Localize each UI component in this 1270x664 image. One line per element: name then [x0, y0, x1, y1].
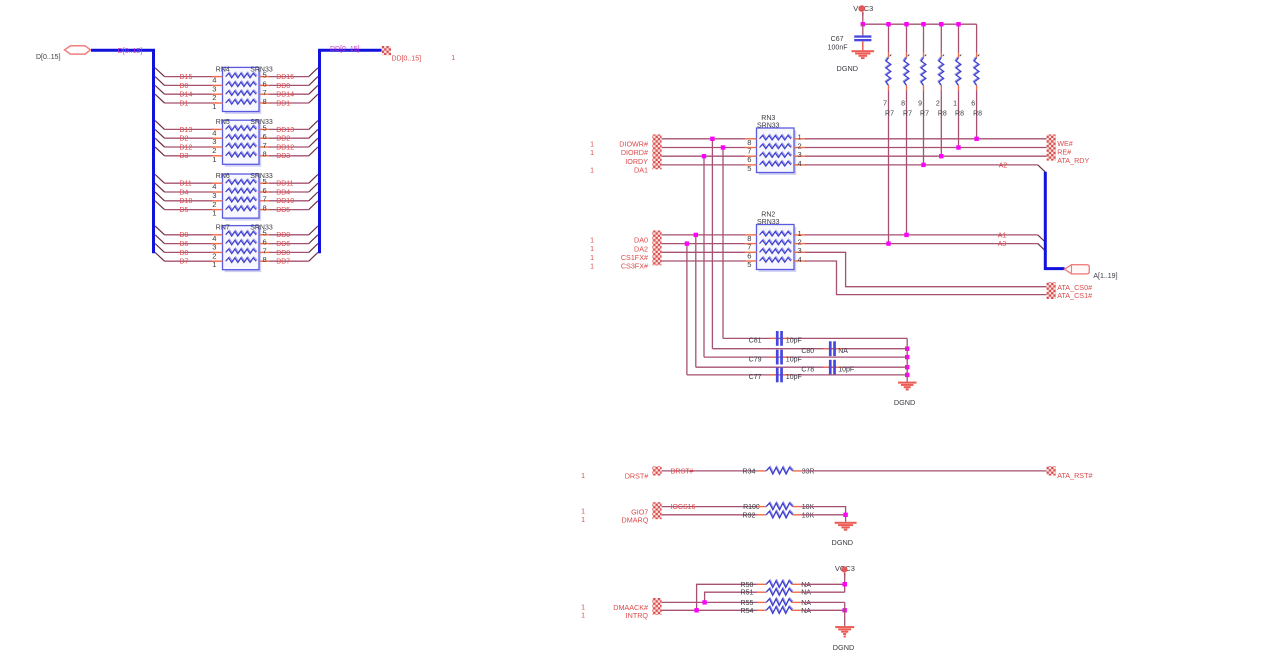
svg-text:R50: R50 — [741, 582, 754, 589]
pin 2 of RN2 — [794, 243, 806, 245]
pin 6 of RN5 — [259, 137, 271, 139]
svg-text:DIOWR#: DIOWR# — [619, 140, 648, 149]
bus entry DD6 — [309, 235, 318, 244]
wire RE# — [805, 147, 1047, 149]
pin 8 of RN6 — [259, 209, 271, 211]
bus entry D14 — [155, 85, 164, 94]
svg-text:10K: 10K — [802, 512, 815, 519]
wire DD1 — [270, 102, 309, 104]
svg-text:DD15: DD15 — [276, 74, 294, 81]
svg-text:8: 8 — [747, 234, 751, 243]
svg-text:10pF: 10pF — [786, 338, 802, 345]
resistor network RN4 SRN33 — [225, 70, 262, 114]
junction at 697,610 — [694, 608, 698, 612]
pin 7 of RN3 — [745, 147, 757, 149]
wire A2 — [805, 164, 1038, 166]
svg-text:7: 7 — [747, 147, 751, 156]
sheet-connector group DMAACK#/INTRQ (checkered) — [652, 598, 661, 615]
resistor element 4 of RN6 — [226, 205, 257, 210]
wire tap DMAACK# up to R51 — [705, 592, 758, 602]
svg-text:DD14: DD14 — [276, 92, 294, 99]
wire R50 right — [801, 583, 845, 585]
resistor element 3 of RN6 — [226, 197, 257, 202]
svg-text:RN4: RN4 — [216, 66, 230, 73]
wire DMAACK# (R55 row) — [662, 601, 758, 603]
svg-text:8: 8 — [263, 255, 267, 264]
bus entry DD15 — [309, 68, 318, 77]
pin 4 of RN6 — [212, 182, 223, 184]
capacitor C79 10pF — [776, 350, 779, 365]
svg-text:C80: C80 — [801, 348, 814, 355]
wire caps to ground — [906, 338, 908, 381]
bus entry DD14 — [309, 85, 318, 94]
svg-text:10pF: 10pF — [786, 374, 802, 381]
wire IORDY to RN3 — [662, 155, 746, 157]
svg-text:1: 1 — [590, 255, 594, 262]
bus entry DD4 — [309, 183, 318, 192]
junction at 846,515 — [843, 513, 847, 517]
svg-text:D2: D2 — [180, 136, 189, 143]
svg-text:R55: R55 — [741, 600, 754, 607]
svg-text:8: 8 — [263, 204, 267, 213]
wire DD4 — [270, 191, 309, 193]
wire DA2 to RN2 — [662, 243, 746, 245]
svg-text:SRN33: SRN33 — [757, 122, 780, 129]
bus entry D4 — [155, 183, 164, 192]
bus entry DD12 — [309, 138, 318, 147]
junction at 845,610 — [843, 608, 847, 612]
bus entry DD3 — [309, 147, 318, 156]
svg-text:DD13: DD13 — [276, 127, 294, 134]
resistor R54 NA — [758, 609, 767, 611]
wire DD14 — [270, 93, 309, 95]
wire DIOWR# to RN3 — [662, 138, 746, 140]
wire tap DA0 down — [695, 235, 697, 367]
svg-text:6: 6 — [263, 132, 267, 141]
wire ATA_CS1# — [805, 261, 1047, 295]
sheet-connector DD[0..15] (checkered) — [382, 46, 391, 55]
svg-text:RN6: RN6 — [216, 173, 230, 180]
bus entry DD2 — [309, 129, 318, 138]
svg-text:DD7: DD7 — [276, 259, 290, 266]
svg-text:DGND: DGND — [833, 643, 855, 652]
junction at 907,367 — [905, 365, 909, 369]
junction at 687,244 — [685, 241, 689, 245]
svg-text:ATA_CS1#: ATA_CS1# — [1057, 291, 1092, 300]
svg-text:3: 3 — [212, 191, 216, 200]
wire C80 row — [712, 348, 907, 350]
wire CS3FX# to RN2 — [662, 260, 746, 262]
pin 5 of RN5 — [259, 128, 271, 130]
svg-text:4: 4 — [212, 234, 216, 243]
svg-text:5: 5 — [747, 164, 751, 173]
svg-text:DD11: DD11 — [276, 181, 293, 188]
svg-text:3: 3 — [798, 246, 802, 255]
pin 1 of RN3 — [794, 138, 806, 140]
wire tap IORDY down — [703, 156, 705, 357]
pin 5 of RN2 — [745, 260, 757, 262]
svg-text:CS1FX#: CS1FX# — [621, 253, 648, 262]
wire DD0 — [270, 84, 309, 86]
svg-text:R92: R92 — [743, 512, 756, 519]
svg-text:7: 7 — [263, 195, 267, 204]
pin 7 of RN2 — [745, 243, 757, 245]
wire INTRQ (R54 row) — [662, 609, 758, 611]
bus entry DD0 — [309, 77, 318, 86]
svg-text:DMARQ: DMARQ — [622, 516, 649, 525]
svg-text:D3: D3 — [180, 153, 189, 160]
pin 1 of RN7 — [212, 260, 223, 262]
bus entry D13 — [155, 121, 164, 130]
svg-text:3: 3 — [212, 243, 216, 252]
pin 5 of RN3 — [745, 164, 757, 166]
svg-text:D9: D9 — [180, 232, 189, 239]
pin 5 of RN6 — [259, 182, 271, 184]
wire D5 — [165, 209, 214, 211]
svg-text:NA: NA — [801, 600, 811, 607]
svg-text:C67: C67 — [831, 36, 844, 43]
svg-text:4: 4 — [798, 159, 802, 168]
bus entry DD1 — [309, 94, 318, 103]
svg-text:RN7: RN7 — [216, 225, 230, 232]
bus entry D3 — [155, 147, 164, 156]
wire C78 row — [696, 366, 907, 368]
svg-text:2: 2 — [212, 146, 216, 155]
sheet-connector DRST# (checkered) — [652, 466, 661, 475]
resistor network RN2 SRN33 — [759, 227, 797, 272]
capacitor C67 100nF — [854, 35, 871, 37]
ground DGND (under C67) — [852, 50, 875, 52]
svg-text:DA2: DA2 — [634, 244, 648, 253]
svg-text:6: 6 — [747, 251, 751, 260]
svg-text:CS3FX#: CS3FX# — [621, 262, 648, 271]
svg-text:D12: D12 — [180, 144, 193, 151]
wire ATA_RDY — [805, 155, 1047, 157]
pin 3 of RN5 — [212, 137, 223, 139]
pin 6 of RN2 — [745, 251, 757, 253]
wire D10 — [165, 200, 214, 202]
svg-text:DD9: DD9 — [276, 232, 290, 239]
bus entry DD5 — [309, 201, 318, 210]
pin 4 of RN3 — [794, 164, 806, 166]
svg-text:D5: D5 — [180, 207, 189, 214]
pin 4 of RN5 — [212, 128, 223, 130]
resistor element 1 of RN4 — [226, 72, 257, 77]
wire DD6 — [270, 243, 309, 245]
wire DD10 — [270, 200, 309, 202]
junction at 941,24 — [939, 22, 943, 26]
junction at 924,24 — [921, 22, 925, 26]
wire R7.9 down — [923, 90, 925, 165]
pin 7 of RN5 — [259, 146, 271, 148]
svg-text:D13: D13 — [180, 127, 193, 134]
resistor R51 NA — [758, 591, 767, 593]
wire R7.8 down — [906, 90, 908, 235]
wire D1 — [165, 102, 214, 104]
wire VCC3 down to R50/R51 — [844, 573, 846, 592]
resistor element 3 of RN2 — [760, 248, 792, 253]
wire DD15 — [270, 76, 309, 78]
svg-text:D8: D8 — [180, 250, 189, 257]
svg-text:4: 4 — [798, 255, 802, 264]
bus entry D12 — [155, 138, 164, 147]
svg-text:9: 9 — [918, 101, 922, 108]
svg-text:C77: C77 — [749, 374, 762, 381]
resistor R7 pin 9 pull-up column — [923, 24, 925, 53]
svg-text:ATA_RST#: ATA_RST# — [1057, 471, 1092, 480]
resistor R34 33R — [758, 470, 767, 472]
wire WE# — [805, 138, 1047, 140]
svg-text:ATA_RDY: ATA_RDY — [1057, 156, 1089, 165]
resistor R100 10K — [758, 506, 767, 508]
svg-text:DA1: DA1 — [634, 166, 648, 175]
svg-text:7: 7 — [263, 141, 267, 150]
resistor element 1 of RN5 — [226, 125, 257, 130]
svg-text:2: 2 — [798, 238, 802, 247]
svg-text:1: 1 — [590, 141, 594, 148]
svg-text:1: 1 — [581, 509, 585, 516]
svg-text:DD10: DD10 — [276, 198, 294, 205]
pin 3 of RN4 — [212, 84, 223, 86]
svg-text:33R: 33R — [802, 468, 815, 475]
resistor element 1 of RN6 — [226, 179, 257, 184]
wire D9 — [165, 234, 214, 236]
wire to C67 — [862, 24, 864, 35]
svg-text:1: 1 — [590, 238, 594, 245]
bus entry A1 — [1038, 235, 1045, 242]
wire R55/R54 to ground — [844, 602, 846, 626]
bus entry DD8 — [309, 244, 318, 253]
svg-text:R7: R7 — [920, 110, 929, 117]
svg-text:100nF: 100nF — [828, 45, 848, 52]
resistor element 3 of RN5 — [226, 143, 257, 148]
pin 8 of RN7 — [259, 260, 271, 262]
svg-text:R7: R7 — [903, 110, 912, 117]
resistor element 2 of RN6 — [226, 188, 257, 193]
svg-text:1: 1 — [590, 246, 594, 253]
sheet-connector group ATA_CS0#/ATA_CS1# (checkered) — [1047, 282, 1056, 299]
svg-text:D15: D15 — [180, 74, 193, 81]
bus entry D9 — [155, 226, 164, 235]
bus entry D10 — [155, 192, 164, 201]
svg-text:8: 8 — [263, 97, 267, 106]
svg-text:NA: NA — [801, 608, 811, 615]
pin 4 of RN2 — [794, 260, 806, 262]
wire C81 row — [723, 337, 907, 339]
svg-text:1: 1 — [581, 517, 585, 524]
bus entry D15 — [155, 68, 164, 77]
pin 2 of RN7 — [212, 251, 223, 253]
svg-text:SRN33: SRN33 — [757, 219, 780, 226]
svg-text:DGND: DGND — [837, 64, 859, 73]
junction at 907,375 — [905, 373, 909, 377]
ground DGND (GIO7/DMARQ) — [835, 522, 857, 524]
svg-text:2: 2 — [212, 93, 216, 102]
svg-text:D7: D7 — [180, 259, 189, 266]
pin 3 of RN2 — [794, 251, 806, 253]
junction at 924,165 — [921, 163, 925, 167]
resistor R8 pin 6 pull-up column — [976, 24, 978, 53]
junction at 696,235 — [694, 233, 698, 237]
wire DD2 — [270, 137, 309, 139]
svg-text:DD12: DD12 — [276, 144, 294, 151]
pin 2 of RN5 — [212, 146, 223, 148]
svg-text:D0: D0 — [180, 83, 189, 90]
svg-text:6: 6 — [263, 79, 267, 88]
svg-text:DRST#: DRST# — [671, 468, 694, 475]
resistor element 2 of RN3 — [760, 143, 792, 148]
pin 8 of RN3 — [745, 138, 757, 140]
wire D7 — [165, 260, 214, 262]
resistor element 1 of RN2 — [760, 231, 792, 236]
junction at 906,235 — [904, 233, 908, 237]
svg-text:2: 2 — [212, 200, 216, 209]
wire A1 — [805, 234, 1038, 236]
svg-text:NA: NA — [838, 348, 848, 355]
pin 4 of RN7 — [212, 234, 223, 236]
wire DD11 — [270, 182, 309, 184]
pin 7 of RN4 — [259, 93, 271, 95]
svg-text:DD8: DD8 — [276, 250, 290, 257]
pin 2 of RN3 — [794, 147, 806, 149]
svg-text:R54: R54 — [741, 608, 754, 615]
svg-text:10pF: 10pF — [786, 356, 802, 363]
junction at 723,148 — [721, 145, 725, 149]
pin 6 of RN7 — [259, 243, 271, 245]
wire D6 — [165, 243, 214, 245]
svg-text:RN3: RN3 — [761, 115, 775, 122]
sheet-connector group GIO7/DMARQ (checkered) — [652, 502, 661, 519]
svg-text:1: 1 — [590, 168, 594, 175]
pin 5 of RN7 — [259, 234, 271, 236]
junction at 712,139 — [710, 137, 714, 141]
wire R55 right — [801, 601, 845, 603]
svg-text:8: 8 — [263, 150, 267, 159]
wire VCC3 rail horizontal — [863, 23, 977, 25]
svg-text:DD[0..15]: DD[0..15] — [392, 55, 422, 62]
pin 7 of RN6 — [259, 200, 271, 202]
junction at 958,148 — [956, 145, 960, 149]
ground DGND (bottom) — [835, 626, 854, 628]
svg-text:IORDY: IORDY — [625, 157, 648, 166]
wire to ground — [845, 515, 847, 522]
wire D13 — [165, 128, 214, 130]
pin 3 of RN7 — [212, 243, 223, 245]
junction at 845,584 — [843, 582, 847, 586]
ground DGND (caps) — [898, 382, 917, 384]
resistor R92 10K — [758, 514, 767, 516]
sheet-connector group DIOWR#/DIORD#/IORDY/DA1 (checkered) — [652, 134, 661, 169]
svg-text:4: 4 — [212, 182, 216, 191]
junction at 888,24 — [886, 22, 890, 26]
svg-text:3: 3 — [212, 84, 216, 93]
svg-text:5: 5 — [747, 260, 751, 269]
svg-text:8: 8 — [901, 101, 905, 108]
bus entry D5 — [155, 201, 164, 210]
svg-text:5: 5 — [263, 71, 267, 80]
capacitor C80 NA — [829, 341, 832, 356]
bus entry D2 — [155, 129, 164, 138]
wire DD7 — [270, 260, 309, 262]
svg-text:7: 7 — [747, 243, 751, 252]
svg-text:DD[0..15]: DD[0..15] — [330, 46, 360, 53]
svg-text:1: 1 — [581, 613, 585, 620]
bus entry D7 — [155, 252, 164, 261]
harness connector A[1..19] — [1065, 265, 1090, 274]
junction at 977,139 — [974, 137, 978, 141]
resistor element 2 of RN4 — [226, 81, 257, 86]
capacitor C77 10pF — [776, 368, 779, 383]
pin 3 of RN6 — [212, 191, 223, 193]
svg-text:6: 6 — [263, 186, 267, 195]
svg-text:1: 1 — [590, 264, 594, 271]
wire R7.7 down — [888, 90, 890, 243]
svg-text:8: 8 — [747, 138, 751, 147]
wire A3 — [805, 243, 1038, 245]
svg-text:1: 1 — [581, 473, 585, 480]
svg-text:6: 6 — [263, 238, 267, 247]
svg-text:DD6: DD6 — [276, 241, 290, 248]
sheet-connector ATA_RST# (checkered) — [1047, 466, 1056, 475]
wire tap INTRQ up to R50 — [697, 584, 758, 610]
svg-text:6: 6 — [747, 155, 751, 164]
svg-text:NA: NA — [801, 582, 811, 589]
bus entry DD9 — [309, 226, 318, 235]
svg-text:R34: R34 — [743, 468, 756, 475]
pin 1 of RN4 — [212, 102, 223, 104]
resistor R7 pin 7 pull-up column — [888, 24, 890, 53]
wire R100 to ground column — [801, 507, 845, 515]
svg-text:C79: C79 — [749, 356, 762, 363]
svg-text:1: 1 — [212, 209, 216, 218]
wire D11 — [165, 182, 214, 184]
resistor element 4 of RN3 — [760, 161, 792, 166]
svg-text:1: 1 — [590, 150, 594, 157]
pin 1 of RN5 — [212, 155, 223, 157]
svg-text:A2: A2 — [999, 162, 1008, 169]
wire CS1FX# to RN2 — [662, 251, 746, 253]
pin 3 of RN3 — [794, 155, 806, 157]
svg-text:DD4: DD4 — [276, 189, 290, 196]
svg-text:R51: R51 — [741, 590, 754, 597]
wire DD8 — [270, 251, 309, 253]
resistor element 3 of RN4 — [226, 90, 257, 95]
wire R92 to ground column — [801, 514, 845, 516]
svg-text:D4: D4 — [180, 189, 189, 196]
svg-text:D6: D6 — [180, 241, 189, 248]
resistor element 2 of RN2 — [760, 239, 792, 244]
bus entry D11 — [155, 174, 164, 183]
svg-text:D1: D1 — [180, 100, 189, 107]
svg-text:D[0..15]: D[0..15] — [36, 54, 61, 61]
capacitor C81 10pF — [776, 331, 779, 346]
bus DD[0..15] right — [320, 50, 382, 253]
svg-text:1: 1 — [798, 229, 802, 238]
pin 6 of RN4 — [259, 84, 271, 86]
resistor R7 pin 8 pull-up column — [906, 24, 908, 53]
wire DA1 to RN3 — [662, 164, 746, 166]
wire DRST# — [662, 470, 758, 472]
svg-text:DD5: DD5 — [276, 207, 290, 214]
pin 8 of RN4 — [259, 102, 271, 104]
wire tap DIORD# down — [722, 148, 724, 339]
wire R51 right — [801, 591, 845, 593]
svg-text:4: 4 — [212, 76, 216, 85]
pin 8 of RN2 — [745, 234, 757, 236]
svg-text:DA0: DA0 — [634, 236, 648, 245]
pin 1 of RN6 — [212, 209, 223, 211]
svg-text:2: 2 — [936, 101, 940, 108]
